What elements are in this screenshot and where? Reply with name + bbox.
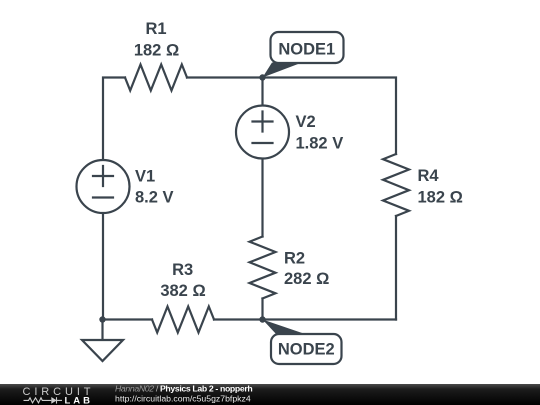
label R2 (284, 250, 329, 289)
wire: R2 to node2 (261, 299, 263, 320)
node NODE1 junction dot (259, 74, 265, 80)
svg-text:R2: R2 (284, 250, 305, 268)
label R1 (134, 20, 179, 60)
resistor R4 (383, 154, 409, 216)
label R3 (160, 261, 205, 300)
wire: R3 to node2 to bottom-right corner (214, 318, 396, 320)
node NODE2 label box (271, 334, 342, 364)
svg-text:282 Ω: 282 Ω (284, 270, 329, 288)
wire: R4 to bottom-right corner (395, 216, 397, 320)
footer bar (0, 384, 540, 405)
resistor R2 (250, 237, 276, 299)
svg-text:V2: V2 (296, 113, 316, 131)
resistor R3 (152, 307, 214, 333)
resistor R1 (125, 65, 187, 91)
label R4 (418, 167, 463, 207)
svg-text:1.82 V: 1.82 V (296, 135, 344, 153)
svg-text:8.2 V: 8.2 V (135, 189, 174, 207)
node NODE2 junction dot (259, 316, 265, 322)
node NODE2 callout pointer (263, 320, 309, 336)
svg-text:NODE1: NODE1 (278, 41, 335, 59)
wire: V1 top to top-left corner to R1 (103, 78, 125, 161)
svg-text:R3: R3 (172, 261, 193, 279)
wire: ground stem (101, 320, 103, 341)
svg-text:182 Ω: 182 Ω (134, 42, 179, 60)
svg-text:LAB: LAB (65, 396, 94, 405)
wire: V2 bottom to R2 (261, 158, 263, 237)
svg-text:NODE2: NODE2 (278, 341, 335, 359)
node NODE1 label box (271, 32, 344, 63)
svg-text:HannaN02 / Physics Lab 2 - nop: HannaN02 / Physics Lab 2 - nopperh (115, 384, 252, 394)
svg-text:R4: R4 (418, 167, 440, 185)
svg-text:382 Ω: 382 Ω (160, 282, 205, 300)
wire: V1 bottom to ground node (102, 213, 104, 320)
label V1 (135, 168, 174, 207)
svg-text:V1: V1 (135, 168, 155, 186)
label V2 (296, 113, 344, 153)
footer logo resistor-diode glyph (24, 397, 63, 403)
svg-text:http://circuitlab.com/c5u5gz7b: http://circuitlab.com/c5u5gz7bfpkz4 (115, 394, 251, 404)
wire: node1 down to V2 (261, 78, 263, 107)
wire: R1 to node1 to top-right corner (187, 78, 396, 155)
voltage source V2 (236, 106, 289, 159)
node: ground junction dot (99, 316, 105, 322)
svg-text:R1: R1 (145, 20, 166, 38)
ground (82, 340, 123, 361)
voltage source V1 (77, 160, 130, 213)
node NODE1 callout pointer (263, 63, 303, 78)
svg-text:182 Ω: 182 Ω (418, 189, 463, 207)
wire: bottom rail left segment (103, 318, 153, 320)
